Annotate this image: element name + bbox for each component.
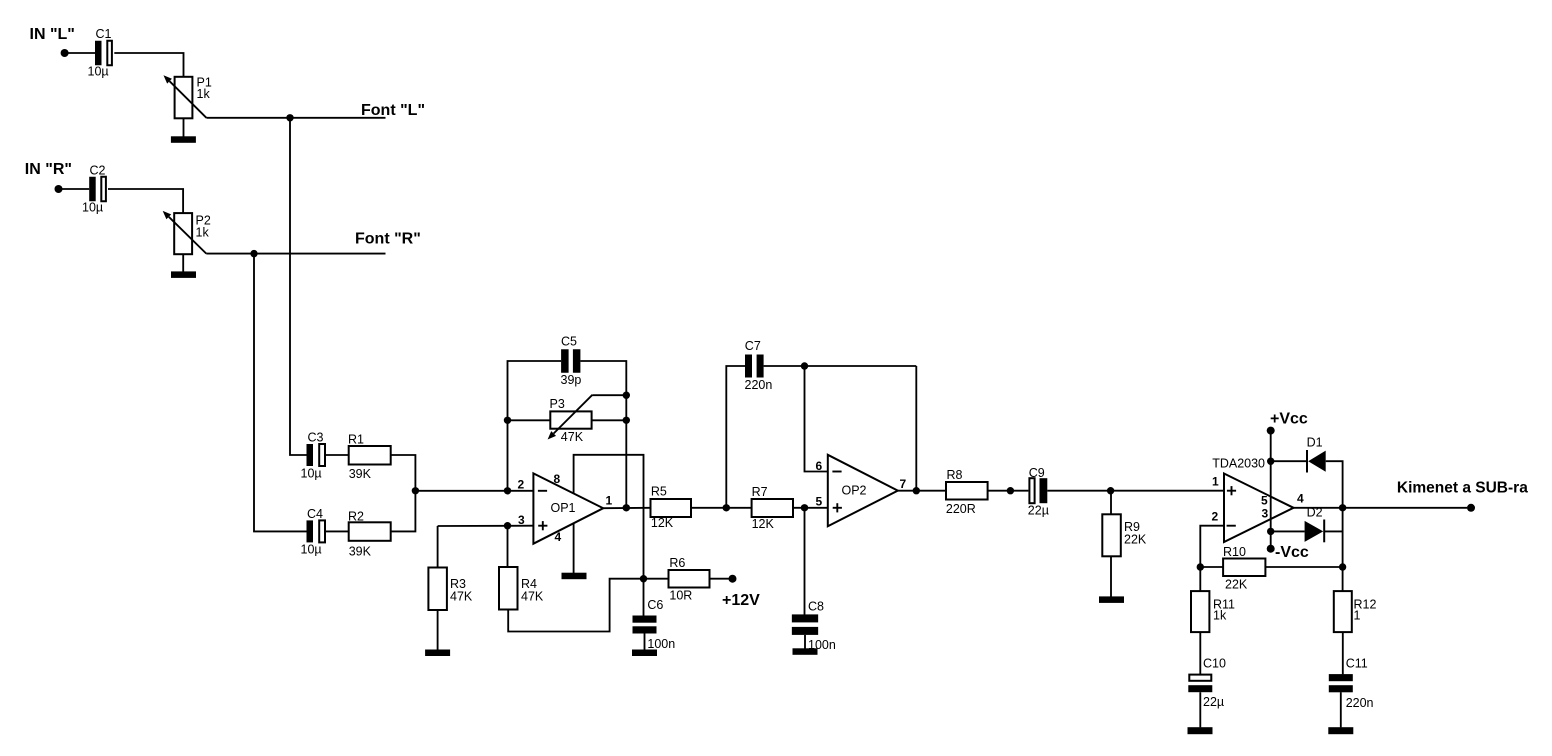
svg-text:3: 3: [518, 513, 525, 527]
svg-text:12K: 12K: [752, 517, 775, 531]
svg-text:220n: 220n: [745, 378, 773, 392]
svg-text:D2: D2: [1307, 506, 1323, 520]
svg-text:8: 8: [554, 472, 561, 486]
svg-text:D1: D1: [1307, 435, 1323, 449]
svg-text:C1: C1: [96, 27, 112, 41]
svg-text:C8: C8: [808, 599, 824, 613]
svg-text:100n: 100n: [647, 637, 675, 651]
svg-text:5: 5: [1261, 494, 1268, 508]
svg-text:3: 3: [1262, 507, 1269, 521]
svg-text:39K: 39K: [349, 467, 372, 481]
svg-text:1: 1: [1354, 609, 1361, 623]
svg-text:+Vcc: +Vcc: [1270, 411, 1308, 428]
svg-text:10µ: 10µ: [301, 542, 322, 556]
svg-text:7: 7: [900, 477, 907, 491]
svg-text:IN "L": IN "L": [30, 26, 75, 43]
svg-text:R6: R6: [669, 556, 685, 570]
svg-text:C6: C6: [647, 598, 663, 612]
svg-text:C9: C9: [1029, 466, 1045, 480]
svg-text:4: 4: [1297, 492, 1304, 506]
svg-text:10µ: 10µ: [301, 467, 322, 481]
svg-text:TDA2030: TDA2030: [1212, 457, 1265, 471]
svg-text:220R: 220R: [946, 502, 976, 516]
svg-text:22K: 22K: [1225, 578, 1248, 592]
svg-text:C11: C11: [1346, 657, 1368, 671]
svg-text:Font "R": Font "R": [355, 231, 421, 248]
svg-text:C4: C4: [307, 507, 323, 521]
svg-text:R10: R10: [1223, 545, 1246, 559]
svg-text:OP2: OP2: [842, 483, 867, 497]
svg-text:1: 1: [1212, 475, 1219, 489]
svg-text:IN "R": IN "R": [25, 161, 72, 178]
svg-text:C10: C10: [1203, 657, 1226, 671]
svg-text:R8: R8: [947, 468, 963, 482]
svg-text:1k: 1k: [1213, 609, 1227, 623]
svg-text:39p: 39p: [561, 373, 582, 387]
svg-text:47K: 47K: [450, 589, 473, 603]
svg-text:12K: 12K: [651, 516, 674, 530]
svg-text:10µ: 10µ: [88, 65, 109, 79]
svg-text:10µ: 10µ: [82, 201, 103, 215]
svg-text:22µ: 22µ: [1028, 503, 1049, 517]
svg-text:47K: 47K: [521, 589, 544, 603]
svg-text:47K: 47K: [561, 430, 584, 444]
svg-text:P3: P3: [550, 397, 565, 411]
svg-text:5: 5: [816, 495, 823, 509]
svg-text:-Vcc: -Vcc: [1275, 544, 1309, 561]
svg-text:R5: R5: [651, 485, 667, 499]
svg-text:4: 4: [555, 530, 562, 544]
svg-text:220n: 220n: [1346, 696, 1374, 710]
svg-text:2: 2: [1212, 510, 1219, 524]
svg-text:R2: R2: [348, 510, 364, 524]
svg-text:1k: 1k: [197, 87, 211, 101]
svg-text:2: 2: [518, 478, 525, 492]
svg-text:R7: R7: [752, 485, 768, 499]
svg-text:R1: R1: [348, 432, 364, 446]
svg-text:1: 1: [606, 494, 613, 508]
svg-text:22K: 22K: [1124, 533, 1147, 547]
svg-text:C2: C2: [90, 164, 106, 178]
svg-text:Font "L": Font "L": [361, 102, 425, 119]
svg-text:C3: C3: [308, 431, 324, 445]
svg-text:C7: C7: [745, 339, 761, 353]
svg-text:+12V: +12V: [722, 592, 760, 609]
svg-text:6: 6: [816, 459, 823, 473]
svg-text:22µ: 22µ: [1203, 695, 1224, 709]
svg-text:10R: 10R: [669, 588, 692, 602]
svg-text:OP1: OP1: [551, 501, 576, 515]
svg-text:C5: C5: [561, 335, 577, 349]
svg-text:39K: 39K: [349, 544, 372, 558]
svg-text:Kimenet a SUB-ra: Kimenet a SUB-ra: [1397, 480, 1528, 497]
svg-text:1k: 1k: [196, 226, 210, 240]
